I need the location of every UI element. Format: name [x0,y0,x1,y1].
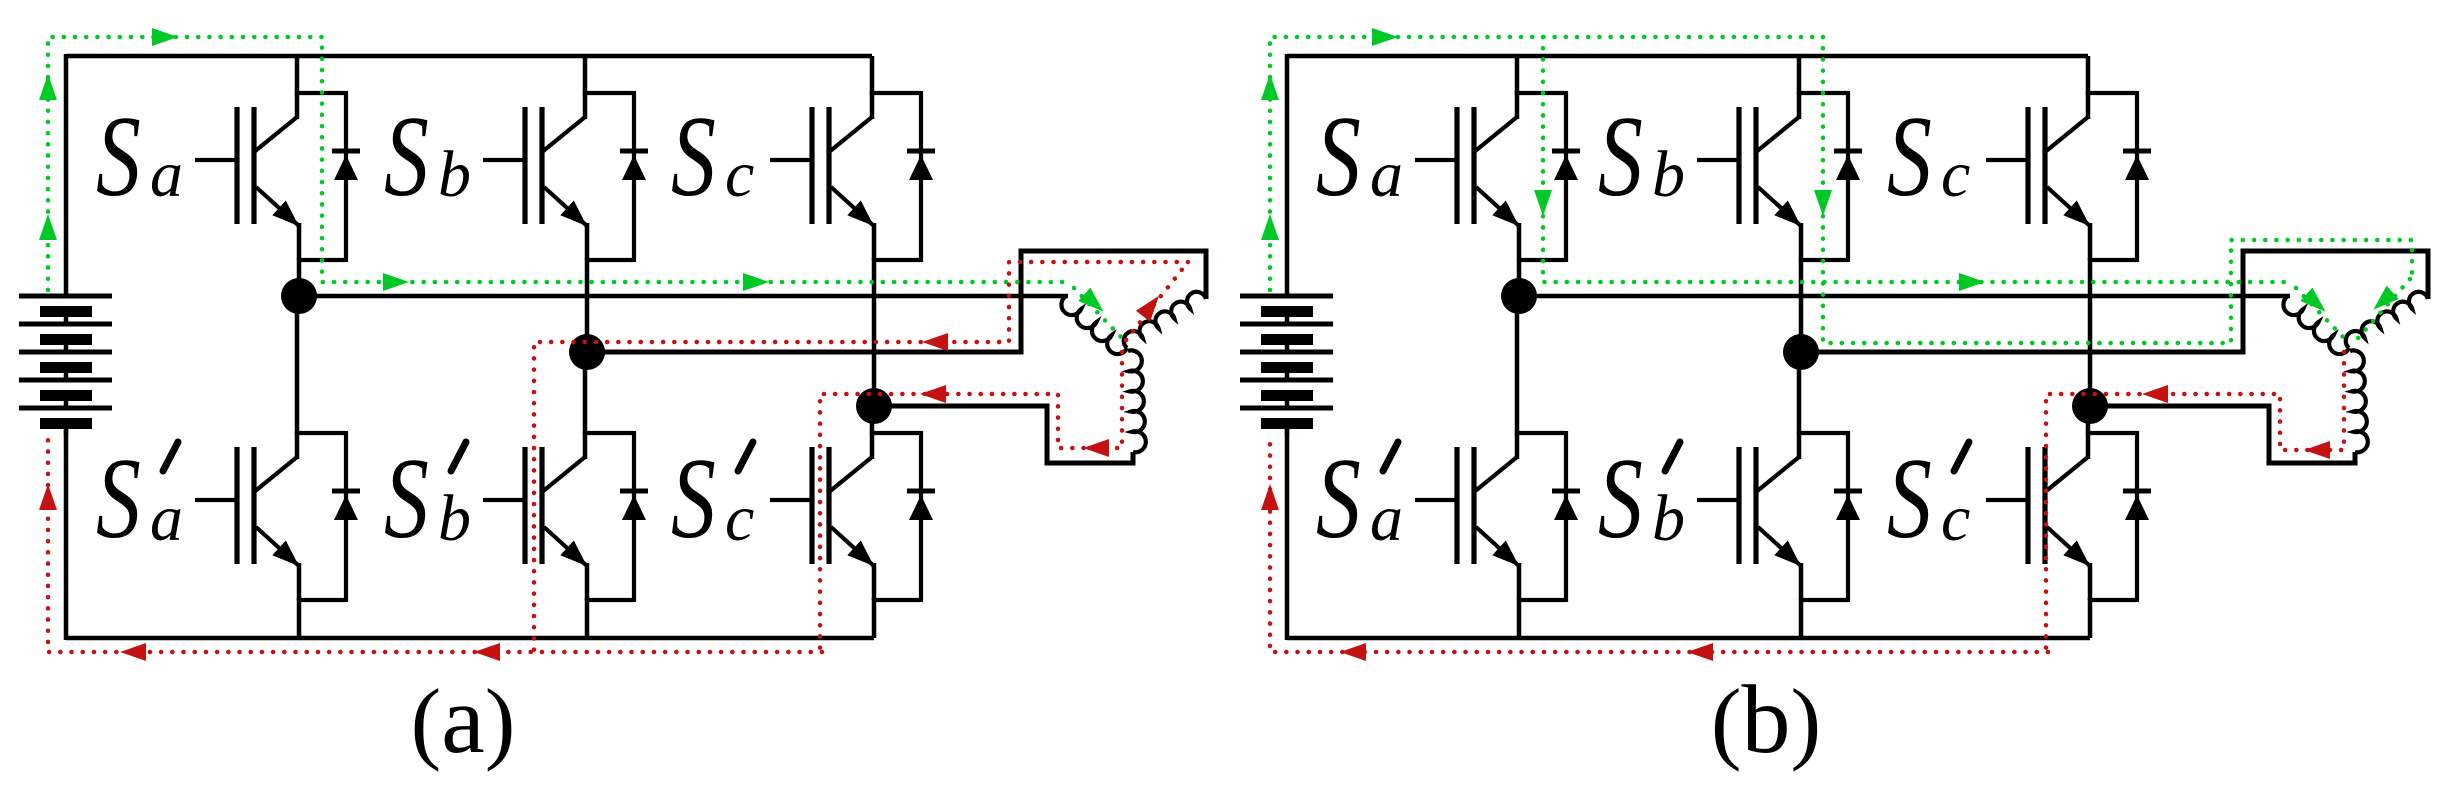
transistor Sa' (bottom) with freewheel diode [1415,431,1580,602]
node a junction dot [1501,278,1537,314]
green arrow (a) right on top run [152,28,178,46]
DC bus top rail [1287,54,2088,59]
svg-text:S: S [384,94,429,221]
wire emitter Sa to node a [297,258,302,296]
svg-text:a: a [150,482,183,555]
green arrow (b) right on phase a run [1959,273,1985,291]
leg b: top device collector wire [583,56,588,95]
leg c: top device collector wire [870,56,875,95]
red current path (b): bottom rail return to battery- [1270,437,2048,652]
transistor Sb (top) with freewheel diode [483,91,648,262]
battery V_dc [1240,296,1333,436]
transistor Sa' (bottom) with freewheel diode [195,431,360,602]
svg-text:S: S [384,436,429,563]
green current path (a): battery+ through Sa to phase a [48,37,1068,290]
green arrow (a) into coil a [1078,288,1109,319]
green path (b) coil b segment [2352,279,2410,345]
wire emitter Sc' to bottom rail [872,598,877,638]
green arrow (b) up left rail upper [1261,74,1279,100]
svg-text:S: S [1598,94,1643,221]
wire node a to Sa' collector [1515,296,1520,435]
svg-text:S: S [1887,436,1932,563]
load coil phase a [2283,296,2349,354]
red arrow (a) up to battery negative [39,484,57,510]
phase b wire to load [587,251,1206,352]
node b junction dot [1783,334,1819,370]
svg-text:b: b [438,138,471,211]
wire emitter Sb to node b [1799,258,1804,352]
svg-text:S: S [1316,94,1361,221]
battery V_dc [19,296,112,436]
wire node b to Sb' collector [583,352,588,435]
transistor Sc' (bottom) with freewheel diode [1986,431,2151,602]
phase b wire to load [1801,251,2428,352]
svg-text:b: b [438,482,471,555]
leg a: top device collector wire [295,56,300,95]
phase c wire to load [874,406,1133,463]
red current path (a): bottom rail return to battery- [48,437,822,652]
node c junction dot [856,388,892,424]
red arrow (a) left on bottom run 1 [120,643,146,661]
wire emitter Sc to node c [2088,258,2093,406]
transistor Sc (top) with freewheel diode [770,91,935,262]
svg-text:a: a [1370,138,1403,211]
leg a: top device collector wire [1515,56,1520,95]
node b junction dot [569,334,605,370]
svg-text:S: S [96,436,141,563]
green arrow (a) right on phase a run 2 [743,273,769,291]
red current path (a): phase b return through Sb' [534,262,1188,652]
green arrow (b) right on top run [1372,28,1398,46]
svg-text:S: S [671,436,716,563]
wire emitter Sa' to bottom rail [297,598,302,638]
transistor Sc' (bottom) with freewheel diode [770,431,935,602]
transistor Sb' (bottom) with freewheel diode [483,431,648,602]
green arrow (a) up left rail lower [39,214,57,240]
wire emitter Sc to node c [872,258,877,406]
red arrow (a) out of coil b [1136,290,1166,322]
leg c: top device collector wire [2086,56,2091,95]
red arrow (a) left on phase c run [920,385,946,403]
wire node c to Sc' collector [870,406,875,435]
svg-text:a: a [1370,482,1403,555]
green arrow (a) up left rail upper [39,74,57,100]
transistor Sa (top) with freewheel diode [195,91,360,262]
svg-text:S: S [671,94,716,221]
transistor Sc (top) with freewheel diode [1986,91,2151,262]
wire emitter Sc' to bottom rail [2088,598,2093,638]
red arrow (a) left on phase b run [922,333,948,351]
green arrow (b) down through Sb [1814,190,1832,216]
leg b: top device collector wire [1797,56,1802,95]
svg-text:S: S [96,94,141,221]
green arrow (b) down through Sa [1534,190,1552,216]
svg-text:S: S [1598,436,1643,563]
svg-text:(a): (a) [411,666,516,774]
green current path (b): battery+ top rail [1270,37,1823,290]
red arrow (b) left below coil c [2304,441,2330,459]
red path (a) coil b segment [1126,262,1188,340]
red arrow (b) up to battery negative [1261,484,1279,510]
battery positive lead [1285,54,1290,296]
node a junction dot [281,278,317,314]
wire node a to Sa' collector [295,296,300,435]
wire node c to Sc' collector [2086,406,2091,435]
transistor Sa (top) with freewheel diode [1415,91,1580,262]
svg-text:b: b [1652,482,1685,555]
battery negative lead [64,428,69,640]
green arrow (b) into coil a [2300,288,2331,319]
DC bus top rail [66,54,872,59]
wire node b to Sb' collector [1797,352,1802,435]
svg-text:b: b [1652,138,1685,211]
svg-text:a: a [150,138,183,211]
green arrow (b) up left rail lower [1261,214,1279,240]
svg-text:S: S [1887,94,1932,221]
wire emitter Sa to node a [1517,258,1522,296]
DC bus bottom rail [66,636,874,641]
load coil phase b [2346,292,2428,348]
green path (a) coil segment [1074,288,1122,338]
svg-text:S: S [1316,436,1361,563]
wire emitter Sa' to bottom rail [1517,598,1522,638]
red arrow (a) left below coil c [1083,439,1109,457]
battery positive lead [64,54,69,296]
transistor Sb (top) with freewheel diode [1697,91,1862,262]
green path (b) through Sb to phase b [1823,37,2412,343]
load coil phase c [1128,350,1146,452]
svg-text:(b): (b) [1711,666,1821,774]
red current path (b): phase c return through Sc' [2046,352,2344,652]
svg-text:c: c [1941,138,1970,211]
green arrow (b) into coil b [2367,286,2398,317]
phase c wire to load [2090,406,2355,463]
transistor Sb' (bottom) with freewheel diode [1697,431,1862,602]
load coil phase b [1124,292,1206,348]
DC bus bottom rail [1287,636,2090,641]
svg-text:c: c [725,482,754,555]
wire emitter Sb' to bottom rail [585,598,590,638]
phase a wire to load [299,294,1068,299]
red arrow (a) left on bottom run 2 [474,643,500,661]
battery negative lead [1285,428,1290,640]
red arrow (b) left on phase c run [2142,385,2168,403]
svg-text:c: c [725,138,754,211]
green path (b) through Sa to phase a [1543,37,2290,282]
phase a wire to load [1519,294,2290,299]
green path (b) coil a segment [2296,288,2344,338]
node c junction dot [2072,388,2108,424]
wire emitter Sb to node b [585,258,590,352]
wire emitter Sb' to bottom rail [1799,598,1804,638]
load coil phase a [1061,296,1127,354]
load coil phase c [2350,350,2368,452]
svg-text:c: c [1941,482,1970,555]
red arrow (b) left on bottom run 2 [1687,643,1713,661]
green arrow (a) right on phase a run 1 [383,273,409,291]
red current path (a): phase c return through Sc' [820,352,1122,652]
red arrow (b) left on bottom run 1 [1340,643,1366,661]
